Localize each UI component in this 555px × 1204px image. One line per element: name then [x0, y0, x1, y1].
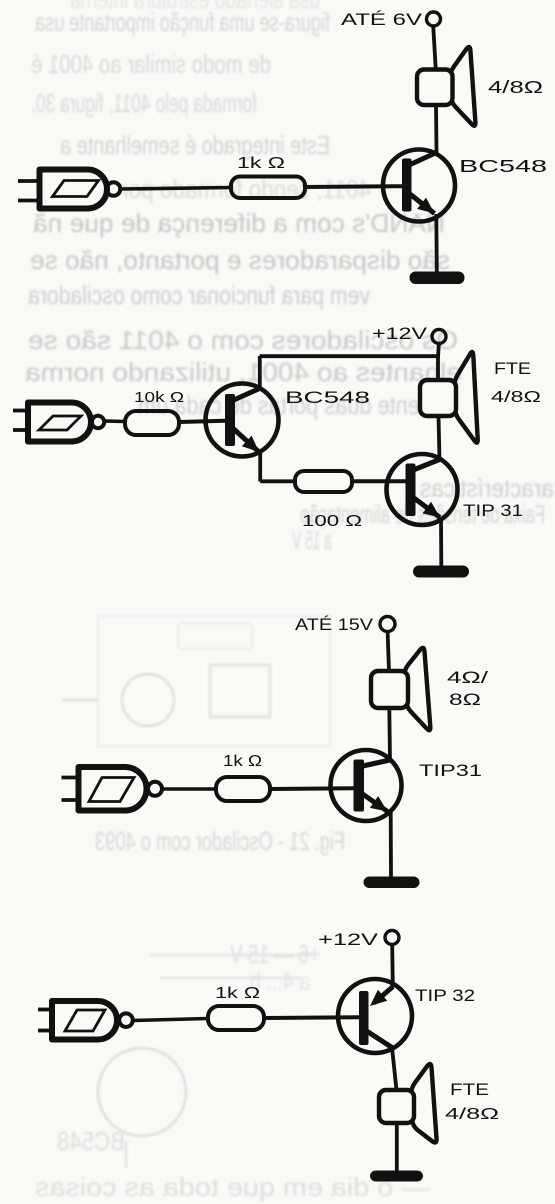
- wire R2 to base BC548-2: [179, 421, 225, 422]
- NAND Schmitt gate G3: [62, 767, 163, 811]
- svg-text:ATÉ 6V: ATÉ 6V: [341, 10, 423, 29]
- svg-text:de modo similar ao 4001 é: de modo similar ao 4001 é: [31, 49, 271, 79]
- svg-text:figura-se uma função important: figura-se uma função importante usa: [35, 7, 330, 37]
- resistor R3 100R: [295, 471, 352, 492]
- svg-text:Este integrado é semelhante a: Este integrado é semelhante a: [60, 130, 330, 160]
- ground ground 3: [364, 877, 420, 889]
- svg-text:BC548: BC548: [57, 1126, 125, 1156]
- svg-text:+12V: +12V: [318, 931, 378, 949]
- svg-text:1k Ω: 1k Ω: [223, 753, 262, 770]
- ghost figure outlines (show-through): [62, 616, 330, 1168]
- svg-text:4/8Ω: 4/8Ω: [445, 1106, 499, 1123]
- svg-text:4/8Ω: 4/8Ω: [488, 77, 543, 97]
- wire R4 to base TIP31-3: [270, 786, 354, 791]
- wire emitter TIP31-3 to ground: [389, 812, 393, 877]
- wire terminal to speaker 3: [388, 632, 389, 671]
- wire emitter BC548-2 to R3: [260, 479, 295, 483]
- svg-text:vem para funcionar como oscila: vem para funcionar como osciladora: [28, 280, 370, 310]
- speaker LS1 4/8ohm: [417, 47, 475, 126]
- svg-text:BC548: BC548: [459, 156, 547, 176]
- speaker LS4 FTE 4/8ohm: [379, 1064, 437, 1143]
- wire emitter Q1 to ground: [434, 214, 438, 272]
- resistor R5 1k: [208, 1006, 264, 1030]
- wire collector TIP32 to speaker 4: [392, 1048, 397, 1091]
- transistor Q4 TIP31: [331, 750, 402, 821]
- svg-text:Fig. 21 - Oscilador com o 4093: Fig. 21 - Oscilador com o 4093: [95, 826, 345, 856]
- svg-text:1k Ω: 1k Ω: [215, 985, 260, 1002]
- svg-text:BC548: BC548: [285, 389, 370, 407]
- wire emitter BC548-2 down: [258, 452, 262, 482]
- svg-text:4Ω/: 4Ω/: [447, 668, 488, 687]
- ground ground 4: [370, 1171, 423, 1182]
- svg-text:8Ω: 8Ω: [449, 690, 481, 709]
- wire collector BC548-2 rail: [260, 354, 439, 358]
- svg-text:são disparadores e portanto, n: são disparadores e portanto, não se: [30, 245, 450, 275]
- wire gate 1 output to R1: [121, 188, 232, 190]
- wire gate 3 output to R4: [162, 787, 216, 791]
- svg-text:formada pelo 4011, figura 30.: formada pelo 4011, figura 30.: [31, 88, 257, 118]
- NAND Schmitt gate G4: [38, 1001, 133, 1040]
- svg-text:TIP31: TIP31: [419, 762, 482, 780]
- ground ground 2: [413, 566, 469, 578]
- wire emitter TIP31-2 to ground: [439, 518, 443, 566]
- transistor Q5 TIP32: [338, 979, 412, 1053]
- supply terminal +12V circuit4: [385, 931, 399, 945]
- NAND Schmitt gate G2: [13, 403, 104, 442]
- wire speaker 3 to collector TIP31-3: [387, 708, 392, 761]
- supply terminal ATÉ 6V: [427, 12, 441, 26]
- ground ground 1: [410, 272, 465, 285]
- NAND Schmitt gate G1: [18, 170, 120, 209]
- svg-text:FTE: FTE: [494, 360, 531, 378]
- svg-text:1k Ω: 1k Ω: [237, 155, 285, 172]
- svg-text:NAND's com a diferença de que: NAND's com a diferença de que nã: [32, 208, 445, 238]
- wire R1 to base Q1: [305, 184, 402, 189]
- wire terminal to emitter TIP32: [390, 945, 394, 987]
- svg-text:ATÉ 15V: ATÉ 15V: [295, 615, 374, 634]
- supply terminal +12V circuit2: [432, 330, 446, 344]
- svg-text:100 Ω: 100 Ω: [302, 513, 362, 530]
- wire R3 to base TIP31-2: [352, 479, 406, 483]
- resistor R1 1k: [231, 177, 305, 199]
- supply terminal ATÉ 15V: [380, 617, 395, 632]
- wire speaker 2 to collector TIP31: [439, 416, 440, 460]
- wire gate 2 output to R2: [104, 419, 125, 423]
- wire gate 4 output to R5: [133, 1019, 208, 1021]
- speaker LS2 FTE 4/8ohm: [420, 352, 478, 443]
- svg-text:4/8Ω: 4/8Ω: [491, 389, 541, 406]
- svg-text:10k Ω: 10k Ω: [134, 390, 184, 406]
- svg-text:TIP 31: TIP 31: [463, 502, 523, 520]
- transistor Q3 TIP31: [387, 454, 458, 525]
- svg-text:TIP 32: TIP 32: [415, 987, 475, 1005]
- svg-text:+12V: +12V: [372, 325, 427, 343]
- wire terminal to speaker 1: [433, 26, 436, 70]
- wire +12V to node: [436, 344, 441, 358]
- transistor Q2 BC548: [206, 384, 279, 457]
- resistor R4 1k: [216, 777, 270, 801]
- resistor R2 10k: [125, 411, 179, 435]
- wire collector BC548-2 up: [258, 356, 262, 389]
- transistor Q1 BC548: [383, 150, 455, 222]
- wire R5 to base TIP32: [264, 1015, 359, 1020]
- speaker LS3 4/8ohm: [371, 648, 430, 730]
- wire rail to speaker 2: [436, 356, 440, 381]
- svg-text:FTE: FTE: [450, 1081, 489, 1099]
- wire speaker 4 to ground: [395, 1123, 399, 1171]
- wire speaker 1 to collector BC548: [434, 105, 438, 153]
